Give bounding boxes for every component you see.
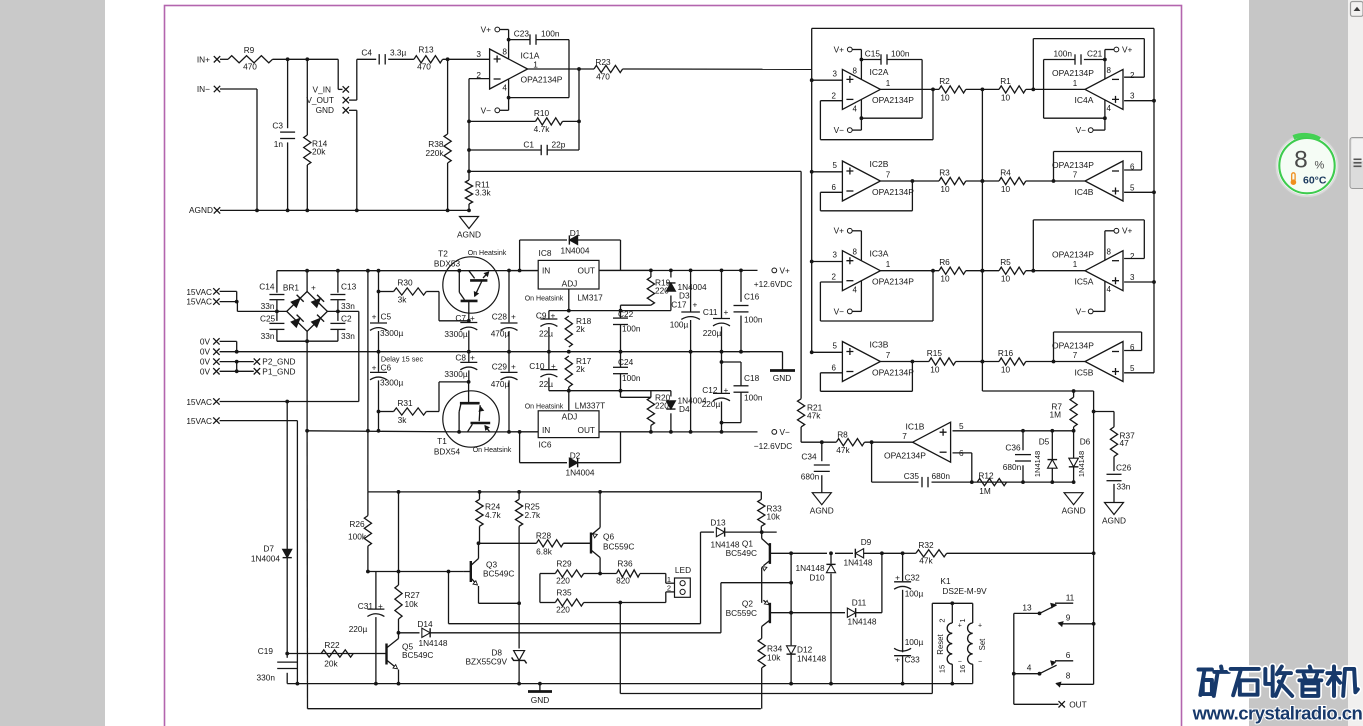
svg-text:Set: Set (978, 638, 987, 651)
svg-text:100n: 100n (1054, 49, 1073, 59)
resistor R4 10 (999, 168, 1026, 195)
svg-text:3: 3 (476, 49, 481, 59)
resistor R7 1M (1049, 397, 1077, 427)
wire ADJ node (549, 309, 622, 313)
svg-text:7: 7 (1073, 171, 1078, 180)
svg-text:20k: 20k (324, 659, 338, 669)
svg-text:R32: R32 (918, 540, 934, 550)
resistor R27 (395, 572, 420, 620)
ground GND out (770, 371, 795, 384)
wire input tap (1124, 280, 1156, 284)
svg-text:10: 10 (940, 274, 950, 284)
svg-text:1: 1 (886, 260, 891, 269)
resistor R22 (285, 640, 375, 669)
capacitor C17 (670, 270, 700, 432)
diode D9 1N4148 (843, 537, 872, 568)
contact 9 (1058, 613, 1095, 627)
svg-text:OPA2134P: OPA2134P (1052, 160, 1094, 170)
transistor Q3 BC549C (464, 541, 515, 603)
svg-text:10k: 10k (767, 653, 781, 663)
svg-text:Q2: Q2 (742, 599, 753, 609)
wire (305, 269, 309, 292)
svg-text:IC8: IC8 (539, 248, 552, 258)
capacitor C14 (259, 271, 284, 312)
wire (966, 88, 985, 92)
svg-text:C7: C7 (455, 313, 466, 323)
wire (349, 110, 357, 210)
wire (1094, 412, 1114, 427)
wire output (880, 180, 939, 182)
svg-text:%: % (1315, 160, 1325, 172)
svg-text:10: 10 (1001, 92, 1011, 102)
capacitor C3 (272, 121, 295, 150)
wire servo feed (469, 170, 801, 172)
svg-text:2: 2 (1130, 71, 1135, 80)
svg-text:0V: 0V (200, 357, 211, 367)
svg-text:1N4148: 1N4148 (796, 563, 825, 573)
wire to buffer bank (623, 68, 812, 70)
svg-text:2k: 2k (576, 364, 586, 374)
wire AGND rail (220, 209, 471, 213)
capacitor C6 (370, 352, 403, 433)
svg-text:3: 3 (833, 251, 838, 260)
svg-text:5: 5 (1130, 183, 1135, 192)
wire (286, 402, 288, 545)
resistor R9 (228, 45, 273, 72)
svg-text:100n: 100n (744, 315, 763, 325)
svg-text:V+: V+ (481, 24, 492, 34)
wire (982, 180, 999, 182)
svg-text:BR1: BR1 (283, 283, 300, 293)
svg-text:3: 3 (1130, 273, 1135, 282)
svg-text:GND: GND (531, 695, 549, 705)
wire (520, 432, 567, 463)
svg-text:1M: 1M (1049, 410, 1061, 420)
terminal V_IN (313, 84, 349, 94)
svg-text:15VAC: 15VAC (186, 397, 212, 407)
svg-text:2: 2 (832, 273, 837, 282)
svg-text:C6: C6 (381, 362, 392, 372)
svg-text:11: 11 (1066, 593, 1075, 603)
svg-text:C28: C28 (492, 311, 508, 321)
svg-text:BZX55C9V: BZX55C9V (465, 657, 507, 667)
terminal V- (834, 125, 853, 135)
wire (552, 552, 554, 554)
svg-text:220: 220 (556, 605, 570, 615)
svg-text:C9: C9 (536, 310, 547, 320)
op-amp IC5A OPA2134P (1052, 250, 1135, 291)
pin labels (1107, 248, 1112, 295)
svg-text:DS2E-M-9V: DS2E-M-9V (942, 586, 987, 596)
svg-text:3: 3 (1130, 92, 1135, 101)
svg-text:LM317: LM317 (577, 293, 603, 303)
node (950, 682, 954, 686)
wire 0V rail (237, 351, 750, 353)
svg-text:10: 10 (1001, 184, 1011, 194)
terminal 0V 1 (200, 336, 220, 346)
svg-text:1N4148: 1N4148 (847, 617, 876, 627)
wire (509, 431, 651, 433)
wire feedback loop (1052, 152, 1142, 183)
svg-text:C12: C12 (702, 385, 718, 395)
svg-text:T2: T2 (438, 249, 448, 259)
svg-text:R12: R12 (978, 471, 994, 481)
svg-text:AGND: AGND (810, 506, 834, 516)
wire (518, 492, 520, 499)
svg-text:C14: C14 (259, 282, 275, 292)
resistor R34 (758, 638, 783, 668)
svg-text:47: 47 (1120, 438, 1130, 448)
terminal 0V 3 (200, 357, 220, 367)
svg-text:R36: R36 (617, 559, 633, 569)
svg-text:1N4004: 1N4004 (565, 468, 594, 478)
resistor R6 10 (939, 257, 966, 284)
resistor R37 (1110, 427, 1135, 457)
svg-text:R2: R2 (939, 76, 950, 86)
svg-text:2: 2 (667, 584, 671, 593)
wire (509, 40, 569, 98)
ground AGND servo (810, 493, 834, 516)
diode D10 1N4148 (796, 553, 836, 685)
wire (220, 89, 257, 210)
svg-text:33n: 33n (341, 331, 355, 341)
capacitor C26 (1107, 457, 1132, 503)
capacitor C18 (720, 362, 763, 425)
wire pin4 (852, 281, 861, 311)
svg-text:470µ: 470µ (491, 329, 510, 339)
wire (760, 492, 762, 499)
svg-text:C26: C26 (1116, 463, 1132, 473)
wire (760, 526, 762, 532)
svg-text:470: 470 (417, 62, 431, 72)
wire (600, 491, 761, 493)
resistor R8 (836, 430, 864, 456)
diode D4 1N4004 (621, 391, 707, 432)
wire (220, 351, 237, 353)
svg-text:7: 7 (886, 171, 891, 180)
svg-text:R13: R13 (418, 45, 434, 55)
terminal V+ (834, 44, 853, 54)
wire (447, 59, 449, 210)
svg-text:10: 10 (940, 92, 950, 102)
wire GND out (741, 352, 783, 370)
svg-text:22p: 22p (552, 140, 566, 150)
wire (517, 526, 521, 605)
capacitor C1 (469, 140, 579, 156)
diode D7 1N4004 (251, 544, 292, 654)
svg-text:3: 3 (833, 69, 838, 78)
svg-text:AGND: AGND (1102, 516, 1126, 526)
wire (479, 526, 481, 543)
svg-text:AGND: AGND (189, 205, 213, 215)
diode D11 1N4148 (847, 598, 877, 627)
wire (479, 542, 537, 544)
wire input tap (810, 260, 843, 264)
transistor Q5 BC549C (375, 633, 433, 686)
wire (1026, 361, 1085, 363)
svg-text:D11: D11 (852, 598, 867, 608)
terminal V- IC1A (481, 105, 500, 115)
wire (1026, 269, 1085, 273)
resistor R20 (647, 391, 670, 432)
svg-text:4: 4 (1107, 104, 1112, 113)
svg-text:P2_GND: P2_GND (262, 357, 295, 367)
wire output bus (981, 89, 985, 391)
svg-text:V−: V− (834, 306, 845, 316)
wire pin8 (852, 50, 863, 80)
wire input tap (1124, 99, 1156, 103)
svg-text:R8: R8 (837, 430, 848, 440)
svg-text:LED: LED (675, 565, 691, 575)
svg-text:100µ: 100µ (670, 320, 689, 330)
op-amp IC2B OPA2134P (832, 159, 915, 201)
svg-text:100µ: 100µ (905, 637, 924, 647)
svg-text:OPA2134P: OPA2134P (1052, 340, 1094, 350)
wire (479, 602, 520, 604)
svg-text:D5: D5 (1039, 437, 1050, 447)
svg-text:IC1B: IC1B (906, 422, 925, 432)
svg-text:220µ: 220µ (703, 328, 722, 338)
regulator IC8 LM317 (525, 248, 603, 303)
resistor R14 (304, 135, 328, 165)
terminal V+ (1114, 44, 1133, 54)
svg-text:+: + (895, 654, 900, 664)
wire (509, 269, 651, 271)
wire input tap (810, 78, 843, 82)
svg-text:100n: 100n (622, 373, 641, 383)
diode D1 1N4004 (560, 228, 589, 256)
wire base T1 (426, 382, 469, 412)
svg-text:OPA2134P: OPA2134P (872, 187, 914, 197)
node junction (305, 57, 309, 61)
wire (725, 530, 777, 534)
svg-text:R31: R31 (397, 398, 413, 408)
svg-text:7: 7 (886, 351, 891, 360)
resistor R33 (758, 499, 782, 526)
svg-text:R6: R6 (939, 257, 950, 267)
capacitor C24 (613, 352, 641, 391)
svg-text:C24: C24 (618, 357, 634, 367)
svg-text:1M: 1M (979, 486, 991, 496)
svg-text:R26: R26 (349, 519, 365, 529)
svg-text:R23: R23 (595, 57, 611, 67)
svg-text:3300µ: 3300µ (444, 329, 467, 339)
svg-text:+: + (372, 311, 377, 321)
transistor Q2 BC559C (726, 599, 791, 639)
svg-text:2k: 2k (576, 324, 586, 334)
svg-text:33n: 33n (341, 301, 355, 311)
capacitor C11 (703, 270, 730, 353)
svg-text:V+: V+ (1122, 226, 1133, 236)
ground AGND servo2 (1062, 493, 1086, 516)
capacitor C10 (529, 352, 557, 391)
wire (449, 572, 701, 624)
op-amp IC4B OPA2134P (1052, 160, 1135, 201)
capacitor C35 (904, 471, 951, 487)
wire (399, 632, 420, 634)
svg-text:1: 1 (1073, 79, 1078, 88)
terminal V- (834, 306, 853, 316)
svg-text:100n: 100n (622, 324, 641, 334)
svg-text:13: 13 (1022, 603, 1032, 613)
svg-text:C31: C31 (358, 601, 374, 611)
svg-text:0V: 0V (200, 347, 211, 357)
wire base line Q3 (368, 570, 464, 574)
svg-text:P1_GND: P1_GND (262, 366, 295, 376)
svg-text:+: + (511, 311, 516, 321)
capacitor C2 (330, 311, 355, 341)
wire bottom rail 2 (620, 693, 932, 695)
svg-text:3.3k: 3.3k (475, 188, 492, 198)
wire (479, 492, 481, 499)
image purple border (165, 6, 1182, 726)
ground GND bottom (528, 684, 552, 705)
resistor R30 (379, 278, 427, 305)
svg-text:V+: V+ (834, 44, 845, 54)
svg-text:C16: C16 (744, 292, 760, 302)
wire (1073, 427, 1075, 431)
capacitor C32 (894, 553, 923, 652)
wire output bus (982, 389, 1093, 393)
relay coil Reset (947, 603, 952, 683)
svg-text:D4: D4 (679, 404, 690, 414)
svg-text:22µ: 22µ (539, 379, 553, 389)
svg-text:GND: GND (316, 105, 334, 115)
svg-text:+: + (311, 283, 316, 293)
terminal GND (316, 105, 349, 115)
wire (791, 551, 833, 555)
svg-text:GND: GND (773, 373, 791, 383)
wire servo net (932, 480, 1076, 484)
op-amp IC2A OPA2134P (832, 67, 915, 109)
capacitor C34 (801, 442, 830, 493)
svg-text:47k: 47k (919, 556, 933, 566)
svg-text:AGND: AGND (1062, 506, 1086, 516)
svg-text:220: 220 (556, 576, 570, 586)
svg-text:C10: C10 (529, 361, 545, 371)
svg-text:3300µ: 3300µ (380, 378, 403, 388)
pole 13 (1014, 603, 1057, 616)
wire (761, 668, 763, 709)
svg-text:V−: V− (834, 125, 845, 135)
svg-text:1: 1 (667, 575, 671, 584)
svg-text:D14: D14 (417, 619, 433, 629)
svg-text:D13: D13 (710, 518, 726, 528)
svg-text:C32: C32 (905, 573, 921, 583)
svg-text:C4: C4 (361, 48, 372, 58)
wire bottom rail 3 (307, 431, 761, 709)
svg-text:OPA2134P: OPA2134P (1052, 250, 1094, 260)
node junction (286, 57, 290, 61)
capacitor C25 (260, 311, 284, 341)
resistor R16 10 (998, 348, 1026, 375)
svg-text:D7: D7 (263, 544, 274, 554)
terminal 0V 4 (200, 366, 220, 376)
svg-text:V−: V− (481, 105, 492, 115)
op-amp IC3B OPA2134P (832, 339, 915, 381)
wire (982, 270, 999, 272)
terminal P2_GND (254, 357, 296, 367)
svg-text:+: + (551, 361, 556, 371)
svg-text:BDX54: BDX54 (434, 447, 461, 457)
svg-text:R1: R1 (1000, 76, 1011, 86)
wire (701, 532, 715, 624)
svg-text:IC3B: IC3B (870, 339, 889, 349)
wire pin6 (953, 453, 972, 482)
svg-text:R4: R4 (1000, 168, 1011, 178)
wire (791, 612, 845, 614)
svg-text:330n: 330n (257, 673, 276, 683)
op-amp IC3A OPA2134P (832, 249, 915, 291)
svg-text:IC5A: IC5A (1075, 277, 1094, 287)
svg-text:AGND: AGND (457, 230, 481, 240)
wire (982, 361, 999, 363)
wire (1073, 391, 1075, 397)
svg-text:0V: 0V (200, 366, 211, 376)
wire feedback loop (820, 88, 934, 140)
relay coil Set (968, 603, 973, 683)
wire (220, 300, 287, 314)
wire (620, 391, 622, 398)
wire feedback loop (820, 269, 934, 321)
capacitor C19 (257, 646, 298, 684)
wire (220, 360, 254, 373)
capacitor C31 (349, 572, 385, 686)
svg-text:C18: C18 (744, 373, 760, 383)
svg-text:1: 1 (1073, 260, 1078, 269)
wire (761, 583, 763, 603)
terminal 15VAC 2 (186, 297, 219, 307)
resistor R2 10 (939, 76, 966, 103)
wire feedback loop (1052, 332, 1142, 363)
terminal 15VAC 3 (186, 397, 219, 407)
wire input bus (812, 28, 1154, 372)
wire (947, 552, 1094, 554)
svg-text:V−: V− (1076, 306, 1087, 316)
svg-text:1N4004: 1N4004 (560, 246, 589, 256)
svg-text:R29: R29 (556, 559, 572, 569)
terminal 15VAC 1 (186, 287, 219, 297)
wire ADJ (567, 289, 571, 313)
resistor R32 (916, 540, 947, 566)
svg-text:C19: C19 (258, 646, 274, 656)
svg-text:0V: 0V (200, 336, 211, 346)
wire (397, 619, 401, 635)
wire feedback loop (820, 179, 914, 211)
svg-text:OPA2134P: OPA2134P (872, 277, 914, 287)
svg-text:1N4148: 1N4148 (1077, 451, 1086, 477)
svg-text:3k: 3k (398, 295, 408, 305)
wire (520, 240, 567, 271)
terminal P1_GND (254, 366, 296, 376)
svg-text:V_IN: V_IN (313, 84, 331, 94)
svg-text:1: 1 (886, 79, 891, 88)
svg-text:BC549C: BC549C (483, 569, 514, 579)
wire (357, 58, 376, 60)
resistor R5 10 (999, 257, 1026, 284)
svg-text:On Heatsink: On Heatsink (468, 250, 507, 257)
svg-text:IC3A: IC3A (870, 249, 889, 259)
svg-text:20k: 20k (312, 147, 326, 157)
svg-text:V+: V+ (1122, 44, 1133, 54)
wire (367, 492, 369, 516)
svg-text:1N4148: 1N4148 (797, 654, 826, 664)
svg-text:4: 4 (853, 286, 858, 295)
wire (578, 240, 621, 270)
diode D12 1N4148 (787, 613, 827, 686)
wire feedback (577, 69, 581, 150)
resistor R13 (414, 45, 443, 72)
